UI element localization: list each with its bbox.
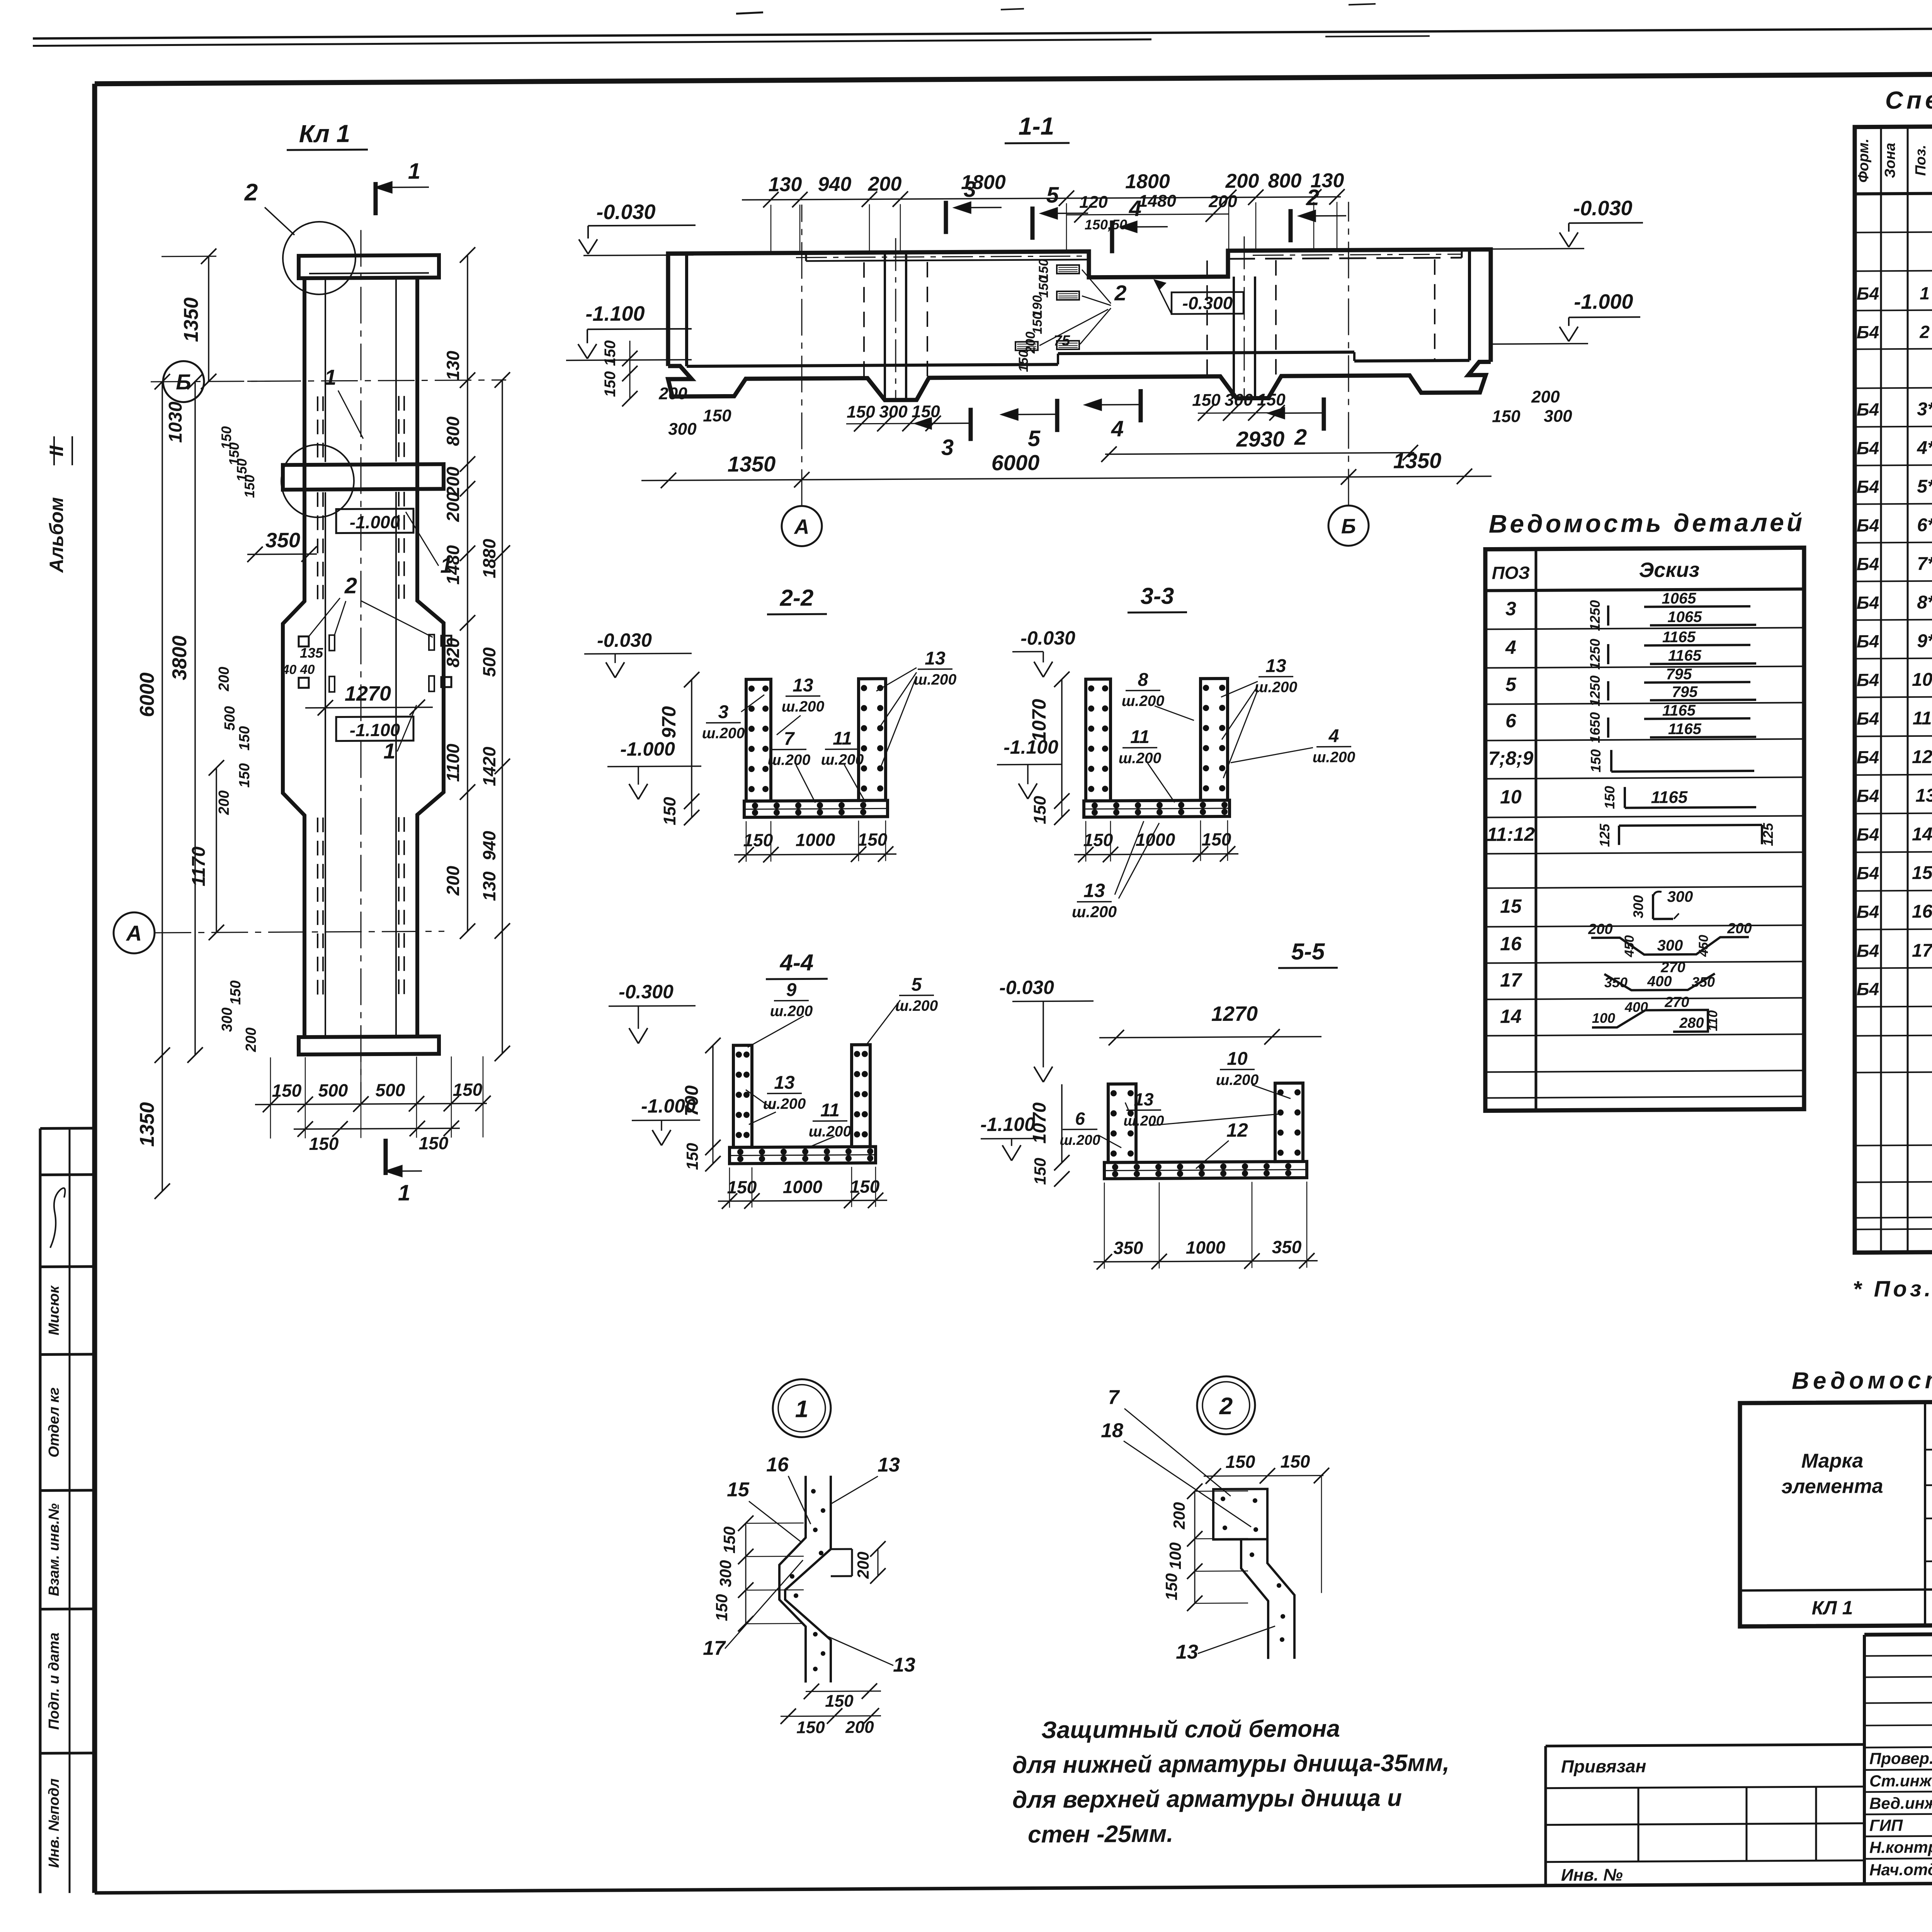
sketch pos15 [1652, 894, 1654, 919]
svg-text:Кл 1: Кл 1 [299, 119, 350, 148]
svg-text:110: 110 [1706, 1010, 1720, 1031]
svg-text:350: 350 [1692, 974, 1715, 990]
section 1-1 cut flags bottom [969, 408, 973, 441]
svg-text:1270: 1270 [345, 682, 391, 706]
svg-text:для нижней арматуры днища-3: для нижней арматуры днища-35мм, [1012, 1750, 1449, 1779]
steel table horizontals [1925, 1446, 1932, 1450]
sketch pos789 [1610, 750, 1612, 772]
section 1-1 bottom profile [668, 362, 1491, 401]
svg-text:4-4: 4-4 [780, 949, 814, 975]
svg-text:150: 150 [720, 1526, 738, 1553]
svg-text:Б4: Б4 [1857, 283, 1879, 303]
svg-text:2-2: 2-2 [780, 585, 814, 611]
svg-text:13: 13 [925, 648, 946, 669]
svg-text:Ст.инж.: Ст.инж. [1869, 1772, 1932, 1790]
section 2-2 bottom dims [734, 854, 896, 855]
svg-text:400: 400 [1624, 999, 1648, 1015]
svg-text:150: 150 [309, 1134, 339, 1154]
plan right dim lines [467, 255, 468, 931]
svg-text:200: 200 [216, 667, 232, 692]
svg-text:795: 795 [1672, 684, 1698, 701]
plan detail 2 callout circle [283, 221, 355, 294]
section 1-1 right pipe [1233, 277, 1235, 396]
svg-text:ш.200: ш.200 [770, 1003, 813, 1020]
svg-text:150: 150 [1083, 830, 1113, 850]
svg-text:3: 3 [1505, 598, 1516, 619]
svg-text:1165: 1165 [1668, 647, 1702, 664]
plan centerline vertical [361, 230, 362, 1103]
section 2-2 dim 150 vert [691, 801, 692, 818]
svg-text:150: 150 [1281, 1451, 1310, 1471]
svg-text:стен -25мм.: стен -25мм. [1028, 1821, 1173, 1848]
svg-text:300: 300 [1657, 937, 1683, 954]
svg-text:1000: 1000 [1136, 830, 1175, 850]
svg-text:150: 150 [703, 406, 731, 425]
plan column inner wall lines [325, 278, 326, 462]
svg-text:17: 17 [1500, 969, 1522, 991]
detail 1 wall section [779, 1476, 806, 1682]
svg-text:12: 12 [1226, 1119, 1248, 1141]
scan specks top [736, 12, 763, 14]
svg-text:Нач.отд: Нач.отд [1869, 1861, 1932, 1879]
svg-text:Б4: Б4 [1857, 979, 1879, 999]
svg-text:800: 800 [1268, 170, 1302, 192]
plan bottom section flag 1 [384, 1139, 388, 1175]
svg-text:Б4: Б4 [1857, 476, 1879, 497]
svg-text:16: 16 [1500, 933, 1522, 954]
svg-text:150: 150 [850, 1176, 880, 1196]
section 1-1 axis circles [782, 506, 822, 546]
svg-text:1: 1 [324, 365, 336, 389]
svg-text:2: 2 [1219, 1393, 1233, 1420]
svg-text:5: 5 [1505, 673, 1517, 695]
svg-text:1165: 1165 [1651, 788, 1688, 807]
svg-text:ш.200: ш.200 [782, 698, 825, 715]
title block upper left rows [1864, 1655, 1932, 1656]
svg-text:ш.200: ш.200 [1313, 749, 1355, 766]
section 1-1 bottom pit dims [846, 423, 935, 424]
svg-text:300: 300 [879, 402, 908, 421]
svg-text:1165: 1165 [1662, 629, 1696, 646]
svg-text:350: 350 [1114, 1238, 1143, 1258]
section 4-4 bottom dims [718, 1200, 887, 1201]
svg-text:150: 150 [1226, 1452, 1255, 1472]
svg-text:200: 200 [868, 173, 902, 195]
svg-text:А: А [126, 921, 142, 945]
svg-text:1000: 1000 [1186, 1237, 1226, 1258]
svg-text:1800: 1800 [1125, 170, 1170, 193]
section 3-3 dim 1070 [1061, 679, 1063, 801]
svg-text:1650: 1650 [1587, 712, 1603, 743]
detail 1 bottom dims [806, 1690, 881, 1692]
plan detail 1 callout circle [281, 444, 354, 517]
scan top edge line 1 [33, 25, 1932, 38]
svg-text:150: 150 [1031, 796, 1049, 824]
svg-text:3: 3 [941, 435, 954, 460]
svg-text:1880: 1880 [479, 539, 499, 578]
svg-text:1250: 1250 [1587, 600, 1603, 631]
svg-text:150: 150 [236, 726, 253, 751]
svg-text:13: 13 [1083, 880, 1105, 901]
drawing frame border [95, 70, 1932, 83]
svg-text:Инв. №: Инв. № [1561, 1866, 1623, 1885]
svg-text:100: 100 [1592, 1010, 1615, 1026]
svg-text:-0.030: -0.030 [597, 629, 652, 651]
svg-text:ш.200: ш.200 [914, 671, 957, 688]
axis B circle [163, 361, 204, 402]
svg-text:150: 150 [272, 1080, 302, 1100]
svg-text:150: 150 [713, 1594, 731, 1621]
svg-text:6*: 6* [1917, 515, 1932, 536]
specification table frame [1855, 123, 1932, 1253]
svg-text:280: 280 [1679, 1015, 1704, 1031]
svg-text:Мисюк: Мисюк [46, 1285, 62, 1335]
svg-text:7;8;9: 7;8;9 [1488, 747, 1534, 769]
svg-text:Б4: Б4 [1857, 863, 1879, 883]
svg-text:150: 150 [1202, 829, 1231, 849]
svg-text:-1.100: -1.100 [350, 720, 400, 740]
svg-text:Б4: Б4 [1857, 708, 1879, 728]
svg-text:150: 150 [1036, 276, 1051, 298]
svg-text:А: А [794, 515, 810, 538]
section 2-2 body [746, 679, 771, 801]
svg-text:13: 13 [1915, 786, 1932, 806]
svg-text:1250: 1250 [1587, 675, 1603, 706]
section 5-5 body [1108, 1084, 1136, 1162]
svg-text:4: 4 [1129, 196, 1141, 221]
svg-text:800: 800 [443, 416, 463, 446]
svg-text:ш.200: ш.200 [1216, 1072, 1259, 1089]
svg-text:500: 500 [222, 706, 238, 731]
svg-text:3: 3 [718, 702, 729, 722]
svg-text:1250: 1250 [1587, 639, 1603, 670]
section 1-1 main bottom dim 6000 [641, 476, 1492, 480]
svg-text:150: 150 [602, 371, 619, 397]
svg-text:9*: 9* [1917, 631, 1932, 651]
svg-text:-0.300: -0.300 [1182, 293, 1233, 313]
left sidebar stamp boxes [39, 1128, 42, 1893]
sidebar signature squiggle [50, 1188, 65, 1248]
svg-text:Б: Б [1341, 515, 1356, 538]
section 1-1 level -0.300 box [1172, 292, 1243, 314]
svg-text:-1.000: -1.000 [620, 738, 675, 760]
svg-text:200: 200 [443, 492, 463, 522]
svg-text:5: 5 [1028, 426, 1041, 451]
svg-text:2930: 2930 [1236, 427, 1285, 451]
section 1-1 wall inner lines [685, 253, 688, 366]
svg-text:Альбом: Альбом [46, 497, 67, 573]
plan dim minus1.000 box [336, 509, 413, 533]
svg-text:200: 200 [658, 384, 687, 403]
section 1-1 left pipe MN553 [884, 252, 886, 398]
svg-text:150: 150 [1492, 407, 1520, 426]
section 2-2 dim 970 [691, 680, 692, 801]
svg-text:150: 150 [683, 1143, 701, 1170]
svg-text:ш.200: ш.200 [809, 1123, 852, 1140]
svg-text:Б4: Б4 [1857, 747, 1879, 767]
plan section flag 1 top [374, 182, 378, 215]
privyazan box [1546, 1745, 1864, 1746]
svg-text:3-3: 3-3 [1141, 583, 1174, 609]
section 1-1 dashed pit edges [863, 262, 865, 378]
sketch pos14 [1592, 1010, 1708, 1032]
svg-text:Б4: Б4 [1857, 438, 1879, 458]
svg-text:150: 150 [660, 797, 679, 825]
svg-text:17: 17 [703, 1637, 726, 1659]
svg-text:4*: 4* [1917, 438, 1932, 458]
svg-text:13: 13 [878, 1454, 900, 1476]
svg-text:Б4: Б4 [1857, 515, 1879, 535]
svg-text:6000: 6000 [136, 672, 158, 717]
svg-text:Взам. инв.№: Взам. инв.№ [46, 1503, 62, 1596]
svg-text:40 40: 40 40 [281, 662, 315, 677]
svg-text:1270: 1270 [1211, 1002, 1258, 1026]
section 3-3 dim 150 vert [1061, 801, 1063, 817]
svg-text:450: 450 [1696, 935, 1711, 957]
svg-text:300: 300 [1225, 391, 1253, 410]
svg-text:Форм.: Форм. [1855, 138, 1872, 182]
svg-text:ш.200: ш.200 [821, 752, 864, 769]
svg-text:150: 150 [912, 402, 940, 421]
svg-text:150: 150 [858, 829, 888, 849]
plan dim minus1.100 box [336, 717, 413, 741]
svg-text:2: 2 [344, 573, 357, 598]
svg-text:Б4: Б4 [1857, 901, 1879, 922]
svg-text:150: 150 [602, 340, 619, 366]
svg-text:970: 970 [658, 706, 680, 738]
plan embedded plates pos 2 [299, 636, 309, 646]
svg-text:500: 500 [318, 1080, 348, 1100]
svg-text:13: 13 [893, 1654, 915, 1676]
svg-text:150: 150 [236, 763, 253, 788]
svg-text:11:12: 11:12 [1487, 823, 1535, 845]
svg-text:1: 1 [1920, 283, 1930, 303]
section 1-1 interior floor line [687, 364, 1058, 366]
svg-text:1065: 1065 [1668, 609, 1702, 626]
svg-text:Б4: Б4 [1857, 824, 1879, 844]
svg-text:150: 150 [241, 475, 257, 498]
svg-text:125: 125 [1597, 823, 1612, 847]
svg-text:1: 1 [383, 739, 395, 763]
svg-text:1: 1 [408, 158, 420, 184]
svg-text:2: 2 [1114, 281, 1126, 305]
svg-text:15*: 15* [1912, 863, 1932, 883]
svg-text:-1.100: -1.100 [980, 1113, 1035, 1135]
svg-text:Вед.инж: Вед.инж [1869, 1794, 1932, 1813]
svg-text:Б4: Б4 [1857, 940, 1879, 961]
svg-text:Б4: Б4 [1857, 554, 1879, 574]
svg-text:13: 13 [774, 1073, 795, 1093]
svg-text:150: 150 [727, 1177, 757, 1197]
svg-text:150: 150 [228, 980, 244, 1005]
svg-text:ш.200: ш.200 [895, 998, 938, 1015]
svg-text:150,50: 150,50 [1085, 216, 1127, 233]
svg-text:200: 200 [243, 1027, 259, 1053]
svg-text:5: 5 [1046, 182, 1059, 207]
detail 1 callout circle [773, 1379, 831, 1437]
sketch pos17 [1604, 974, 1715, 990]
detail 2 top dims [1204, 1476, 1323, 1476]
svg-text:300: 300 [1544, 406, 1572, 425]
svg-text:13: 13 [1265, 656, 1286, 676]
plan left dim lines [208, 256, 209, 381]
svg-text:ш.200: ш.200 [1119, 750, 1162, 767]
svg-text:7*: 7* [1917, 554, 1932, 574]
svg-text:Б4: Б4 [1857, 592, 1879, 612]
svg-text:-0.030: -0.030 [1573, 197, 1632, 220]
section 1-1 cover slab lines [805, 254, 807, 261]
svg-text:7: 7 [1108, 1386, 1120, 1408]
plan rebar dashed bars [317, 396, 318, 462]
svg-text:2: 2 [1919, 322, 1930, 342]
svg-text:150: 150 [1016, 350, 1031, 372]
svg-text:400: 400 [1647, 973, 1672, 990]
svg-text:11: 11 [833, 728, 852, 749]
svg-text:1350: 1350 [180, 297, 202, 342]
svg-text:8*: 8* [1917, 592, 1932, 613]
svg-text:ПОЗ: ПОЗ [1492, 563, 1530, 583]
svg-text:1420: 1420 [479, 747, 499, 786]
svg-text:11: 11 [1130, 727, 1150, 747]
plan bottom cap [299, 1036, 439, 1054]
svg-text:16: 16 [766, 1454, 789, 1476]
svg-text:Эскиз: Эскиз [1639, 558, 1700, 582]
svg-text:17*: 17* [1912, 940, 1932, 961]
svg-text:700: 700 [682, 1085, 702, 1116]
svg-text:1350: 1350 [728, 452, 776, 476]
svg-text:940: 940 [479, 831, 499, 861]
svg-text:100: 100 [1166, 1542, 1184, 1569]
svg-text:Отдел кг: Отдел кг [46, 1387, 62, 1458]
svg-text:Б4: Б4 [1857, 399, 1879, 419]
svg-text:150: 150 [1162, 1573, 1180, 1600]
svg-text:200: 200 [854, 1552, 872, 1579]
svg-text:Н.контр: Н.контр [1869, 1838, 1932, 1857]
svg-text:1350: 1350 [136, 1102, 158, 1147]
svg-text:1000: 1000 [796, 830, 835, 850]
svg-text:150: 150 [419, 1133, 449, 1153]
svg-text:ш.200: ш.200 [1255, 679, 1298, 696]
svg-text:элемента: элемента [1781, 1475, 1883, 1498]
svg-text:14*: 14* [1912, 824, 1932, 845]
svg-text:4: 4 [1111, 416, 1124, 441]
svg-text:5: 5 [912, 975, 922, 995]
title block signature rows [1864, 1746, 1932, 1748]
svg-text:1100: 1100 [443, 743, 463, 782]
svg-text:1165: 1165 [1668, 721, 1702, 738]
svg-text:15: 15 [1500, 895, 1522, 917]
svg-text:1350: 1350 [1393, 448, 1442, 473]
svg-text:150: 150 [743, 830, 773, 850]
svg-text:Б4: Б4 [1857, 631, 1879, 651]
svg-text:2: 2 [244, 179, 258, 206]
plan bottom dims [255, 1104, 487, 1105]
svg-text:13: 13 [793, 675, 813, 696]
svg-text:Зона: Зона [1882, 143, 1898, 178]
svg-text:300: 300 [1667, 888, 1693, 905]
svg-text:для верхней арматуры днища: для верхней арматуры днища и [1012, 1785, 1402, 1813]
title block frame [1864, 1631, 1932, 1635]
section 1-1 cut flags top [944, 201, 948, 234]
svg-text:200: 200 [1225, 170, 1259, 192]
svg-text:300: 300 [219, 1007, 235, 1032]
svg-text:350: 350 [1604, 975, 1628, 990]
svg-text:200: 200 [1727, 920, 1752, 937]
svg-text:6: 6 [1505, 710, 1517, 731]
svg-text:1: 1 [440, 553, 452, 577]
svg-text:ГИП: ГИП [1869, 1816, 1903, 1834]
svg-text:ш.200: ш.200 [1060, 1132, 1100, 1148]
svg-text:4: 4 [1328, 726, 1339, 746]
svg-text:2: 2 [1294, 425, 1307, 450]
plan middle cross bar element 1 [283, 464, 444, 490]
svg-text:1030: 1030 [165, 401, 186, 443]
svg-text:ш.200: ш.200 [702, 725, 745, 742]
svg-text:Подп. и дата: Подп. и дата [46, 1633, 62, 1730]
sketch pos16 [1591, 937, 1749, 955]
svg-text:-0.300: -0.300 [619, 981, 673, 1003]
svg-text:150: 150 [1588, 749, 1604, 772]
svg-text:Ведомость расхода стали: Ведомость расхода стали на элемент, кг [1792, 1364, 1932, 1395]
section 3-3 bottom dims [1074, 854, 1238, 855]
svg-text:3: 3 [964, 177, 976, 202]
svg-text:* Поз. 3÷12 и 14-18 см. в: * Поз. 3÷12 и 14-18 см. ведомость детале… [1853, 1274, 1932, 1302]
svg-text:Провер.: Провер. [1869, 1749, 1932, 1768]
svg-text:1165: 1165 [1662, 702, 1696, 719]
svg-text:ш.200: ш.200 [763, 1095, 806, 1112]
svg-text:10: 10 [1227, 1049, 1248, 1069]
svg-text:ш.200: ш.200 [1072, 903, 1117, 921]
svg-text:150: 150 [1257, 390, 1286, 409]
svg-text:150: 150 [453, 1080, 483, 1100]
sketch pos10 [1624, 787, 1626, 808]
svg-text:18: 18 [1101, 1419, 1123, 1442]
svg-text:II: II [46, 445, 67, 456]
section 4-4 body [733, 1045, 752, 1147]
svg-text:150: 150 [1602, 786, 1617, 809]
svg-text:Б4: Б4 [1857, 322, 1879, 342]
svg-text:150: 150 [1030, 312, 1045, 334]
svg-text:10*: 10* [1912, 670, 1932, 690]
svg-text:200: 200 [1208, 192, 1237, 211]
svg-text:350: 350 [1272, 1237, 1302, 1257]
svg-text:6: 6 [1075, 1109, 1085, 1129]
sketch pos11-12 [1619, 825, 1762, 826]
svg-text:10: 10 [1500, 786, 1522, 808]
svg-text:1000: 1000 [783, 1177, 823, 1197]
svg-text:4: 4 [1505, 636, 1516, 658]
svg-text:150: 150 [847, 403, 875, 422]
steel table verticals [1924, 1402, 1926, 1626]
vedomost detaley table frame [1485, 548, 1804, 1111]
svg-text:Ведомость деталей: Ведомость деталей [1489, 508, 1805, 538]
axis A circle [114, 912, 155, 954]
svg-text:200: 200 [1531, 388, 1560, 406]
section 4-4 dim 700 [712, 1046, 714, 1148]
svg-text:-0.030: -0.030 [999, 976, 1054, 998]
svg-text:1170: 1170 [189, 846, 209, 886]
svg-text:-1.100: -1.100 [1003, 736, 1058, 758]
svg-text:350: 350 [265, 529, 300, 552]
svg-text:Спецификация к моналитному: Спецификация к моналитному каналу кл1 [1885, 83, 1932, 114]
svg-text:200: 200 [443, 866, 463, 896]
svg-text:-1.000: -1.000 [1574, 290, 1633, 314]
plan column outline [283, 278, 304, 1037]
svg-text:ш.200: ш.200 [768, 752, 811, 769]
svg-text:135: 135 [300, 645, 323, 661]
section 3-3 body [1086, 679, 1111, 801]
svg-text:795: 795 [1666, 666, 1692, 683]
